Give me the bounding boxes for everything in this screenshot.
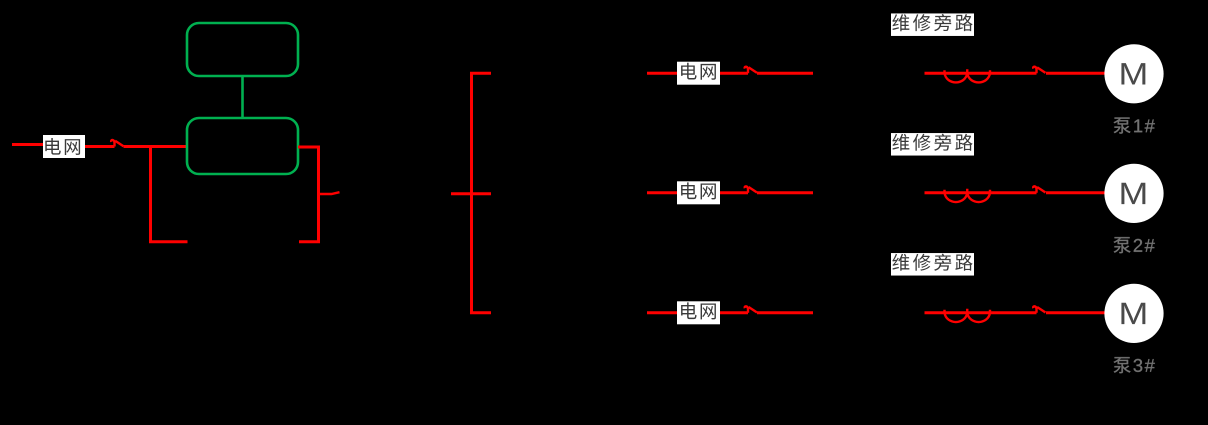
wire bypass 2 <box>925 191 1037 194</box>
switch output tap <box>319 192 340 194</box>
motor M1 <box>1104 44 1163 103</box>
node 维修旁路 bypass label 3 <box>891 253 974 275</box>
wire right bracket <box>298 147 319 242</box>
wire feeder 3 after switch <box>757 311 813 314</box>
node 泵2# pump label <box>1114 237 1131 253</box>
node 泵3# pump label <box>1114 357 1131 373</box>
overload relay FR2 <box>945 189 991 202</box>
wire bypass 3 <box>925 311 1037 314</box>
switch QM3 motor switch <box>1033 306 1045 313</box>
wire feeder 2 after switch <box>757 191 813 194</box>
overload relay FR1 <box>945 69 991 82</box>
node 维修旁路 bypass label 2 <box>891 133 974 156</box>
switch QF2 feeder breaker <box>745 186 757 193</box>
switch QS0 incomer disconnector <box>111 140 123 147</box>
switch QM1 motor switch <box>1033 67 1045 74</box>
wire bus bracket <box>472 73 492 313</box>
node 电网 incomer label <box>43 135 85 158</box>
block bottom (green) <box>187 118 298 174</box>
wire feeder 1 to switch <box>720 72 748 75</box>
wire green connector <box>241 76 244 118</box>
node 维修旁路 bypass label 1 <box>891 13 974 36</box>
node 电网 feeder 3 label <box>677 301 720 324</box>
wire bypass 1 to motor <box>1046 72 1105 75</box>
wire switch to transformer <box>124 145 188 148</box>
switch QF1 feeder breaker <box>745 67 757 74</box>
wire bus crossbar <box>451 192 491 195</box>
wire feeder 1 after switch <box>757 72 813 75</box>
wire bypass 3 to motor <box>1046 311 1105 314</box>
node 电网 feeder 2 label <box>677 181 720 204</box>
switch QF3 feeder breaker <box>745 306 757 313</box>
wire label to switch <box>85 145 115 148</box>
overload relay FR3 <box>945 309 991 322</box>
block top (green) <box>187 23 298 76</box>
node 电网 feeder 1 label <box>677 62 720 85</box>
wire incomer left stub <box>12 143 43 146</box>
motor M3 <box>1104 284 1163 343</box>
wire feeder 2 to switch <box>720 191 748 194</box>
wire bypass 1 <box>925 72 1037 75</box>
node 泵1# pump label <box>1114 117 1131 133</box>
wire feeder 3 to switch <box>720 311 748 314</box>
switch QM2 motor switch <box>1033 186 1045 193</box>
wire junction drop left bracket <box>151 147 188 242</box>
motor M2 <box>1104 164 1163 223</box>
wire feeder 2 grid segment <box>647 191 677 194</box>
wire feeder 3 grid segment <box>647 311 677 314</box>
wire bypass 2 to motor <box>1046 191 1105 194</box>
wire feeder 1 grid segment <box>647 72 677 75</box>
